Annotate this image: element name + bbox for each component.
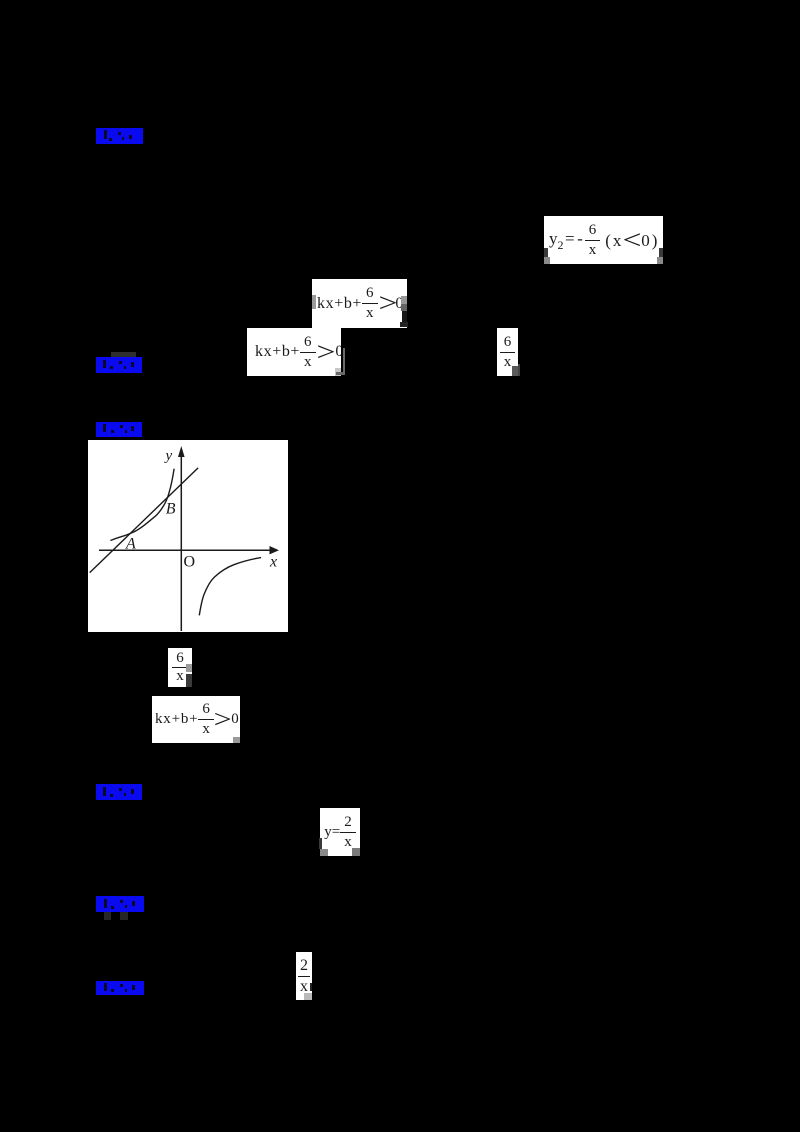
F5 handles xyxy=(186,664,192,672)
F3 handle xyxy=(335,368,341,376)
F6 handle xyxy=(233,737,240,743)
blue label F xyxy=(96,981,144,1000)
formula F3: kx+b+6/x>0 xyxy=(247,328,341,376)
formula F7: y=2/x xyxy=(320,808,360,856)
blue label A xyxy=(96,128,143,149)
blue label C xyxy=(96,422,142,442)
F4 handle xyxy=(512,366,518,376)
formula F5: 6/x xyxy=(168,648,192,687)
figure box xyxy=(88,440,288,632)
grey artifact above label B xyxy=(111,352,136,358)
svg-text:B: B xyxy=(166,501,176,518)
hyperbola branch Q4 xyxy=(199,558,261,616)
x-axis xyxy=(99,549,272,551)
straight line AB xyxy=(90,468,198,573)
blue label B xyxy=(96,357,142,378)
svg-text:A: A xyxy=(125,536,136,553)
formula F8: 2/x xyxy=(296,952,312,1000)
blue label D xyxy=(96,784,142,805)
formula F6: kx+b+6/x>0 xyxy=(152,696,240,743)
y-axis xyxy=(180,452,182,631)
svg-text:x: x xyxy=(269,554,277,571)
formula F1: y2 = -6/x (x<0) xyxy=(544,216,663,264)
formula F2: kx+b+6/x>0 xyxy=(312,279,407,328)
F2 handles xyxy=(312,295,316,309)
svg-text:y: y xyxy=(164,448,173,464)
blue label E xyxy=(96,896,144,917)
hyperbola branch Q2 xyxy=(110,469,174,541)
formula F4: 6/x xyxy=(497,328,518,376)
F8 handle xyxy=(304,993,312,1000)
F7 handles xyxy=(320,849,328,856)
F1 handles xyxy=(544,257,550,264)
svg-text:O: O xyxy=(184,554,196,571)
grey artifacts below label E xyxy=(104,912,111,920)
